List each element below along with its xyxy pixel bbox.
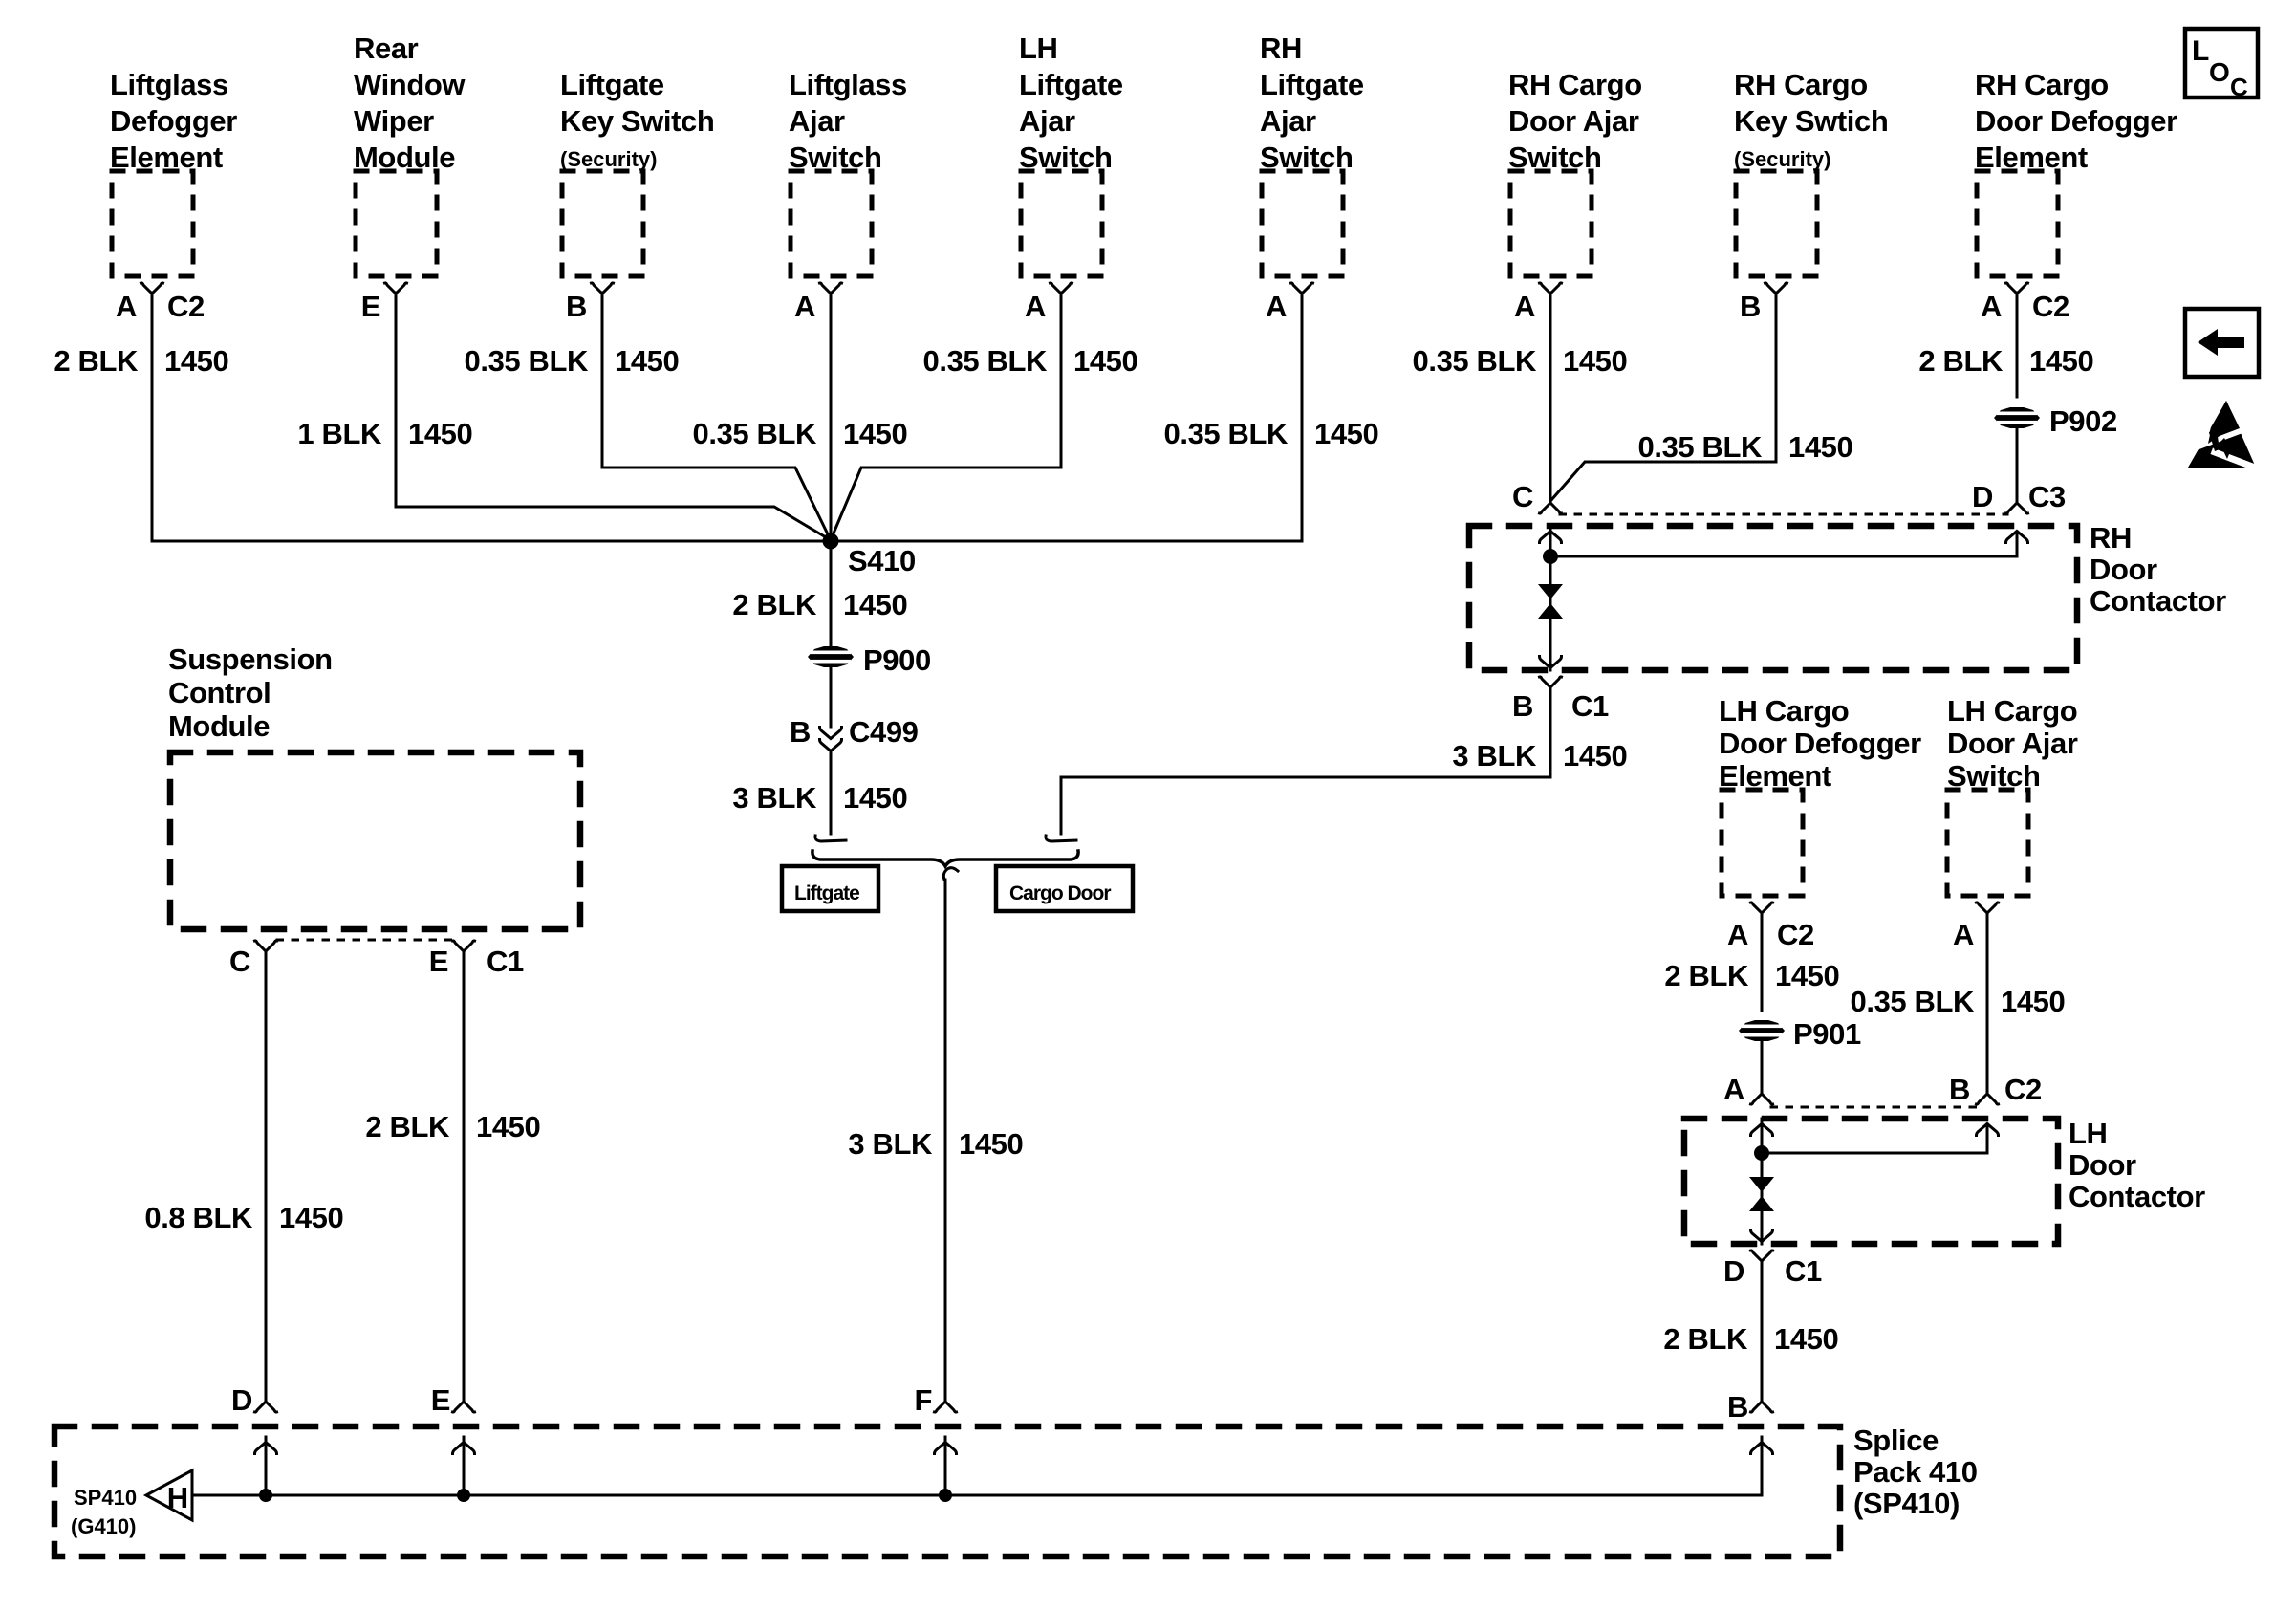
left arrow icon — [2185, 309, 2259, 377]
svg-text:Suspension: Suspension — [168, 642, 333, 676]
svg-text:P902: P902 — [2049, 404, 2117, 438]
svg-text:Liftgate: Liftgate — [1019, 68, 1123, 101]
svg-text:0.35 BLK: 0.35 BLK — [1164, 417, 1289, 450]
connector fork, pin of Liftglass Defogger Element — [141, 283, 163, 294]
svg-text:Contactor: Contactor — [2090, 584, 2226, 618]
svg-text:(SP410): (SP410) — [1853, 1487, 1960, 1520]
wire: Rear Window Wiper Module E to S410 — [396, 293, 831, 540]
svg-text:Liftgate: Liftgate — [1260, 68, 1364, 101]
wire: SCM E to Splice Pack E — [463, 951, 466, 1402]
wire: RH Door Contactor B to cargo-door brace — [1061, 687, 1550, 834]
svg-text:1450: 1450 — [1563, 344, 1627, 378]
junction dot F on bus — [939, 1489, 952, 1502]
wire: SCM C to Splice Pack D — [265, 951, 268, 1402]
wire: C499 to liftgate brace — [830, 751, 833, 834]
svg-text:A: A — [1266, 290, 1287, 323]
svg-text:C2: C2 — [2004, 1073, 2042, 1106]
svg-text:Liftgate: Liftgate — [794, 882, 859, 904]
svg-text:0.35 BLK: 0.35 BLK — [1413, 344, 1537, 378]
svg-text:Window: Window — [354, 68, 466, 101]
svg-text:1450: 1450 — [164, 344, 228, 378]
svg-text:1 BLK: 1 BLK — [297, 417, 382, 450]
junction dot D on bus — [259, 1489, 272, 1502]
svg-text:Ajar: Ajar — [1019, 104, 1075, 138]
svg-text:H: H — [167, 1481, 188, 1514]
svg-text:Key Swtich: Key Swtich — [1734, 104, 1888, 138]
component box: Liftgate Key Switch (Security) (dashed) — [562, 171, 643, 276]
svg-text:A: A — [1727, 918, 1748, 951]
svg-text:LH: LH — [1019, 32, 1058, 65]
svg-text:E: E — [429, 945, 448, 978]
svg-text:1450: 1450 — [1788, 430, 1852, 464]
component box: RH Cargo Key Swtich (Security) (dashed) — [1736, 171, 1817, 276]
splice S410 junction dot — [823, 533, 839, 550]
svg-text:D: D — [1972, 480, 1993, 513]
svg-text:1450: 1450 — [408, 417, 472, 450]
svg-text:Rear: Rear — [354, 32, 419, 65]
arrowhead up at F inside Splice Pack — [935, 1443, 957, 1454]
svg-text:(Security): (Security) — [560, 147, 657, 171]
connector fork F of Splice Pack — [935, 1402, 957, 1412]
arrowhead up at C inside RH Door Contactor — [1540, 532, 1562, 543]
svg-text:S410: S410 — [848, 544, 916, 577]
svg-text:C1: C1 — [1785, 1254, 1822, 1288]
svg-text:B: B — [1727, 1390, 1748, 1424]
LOC marker icon — [2185, 29, 2258, 98]
wire: Splice Pack ground bus — [192, 1494, 1762, 1497]
svg-text:Key Switch: Key Switch — [560, 104, 714, 138]
svg-text:0.8 BLK: 0.8 BLK — [144, 1201, 253, 1234]
component box: Rear Window Wiper Module (dashed) — [356, 171, 437, 276]
svg-text:0.35 BLK: 0.35 BLK — [465, 344, 589, 378]
ESD sensitive device icon — [2188, 401, 2256, 468]
svg-text:2 BLK: 2 BLK — [54, 344, 139, 378]
arrowhead up at B inside Splice Pack — [1751, 1443, 1773, 1454]
svg-text:A: A — [116, 290, 137, 323]
wire: internal riser to B — [1986, 1124, 1989, 1153]
svg-text:C3: C3 — [2028, 480, 2066, 513]
wire: LH Liftgate Ajar Switch A to S410 — [831, 293, 1061, 540]
svg-text:2 BLK: 2 BLK — [1918, 344, 2004, 378]
svg-text:1450: 1450 — [2029, 344, 2093, 378]
arrowhead up at B inside LH Door Contactor — [1977, 1124, 1999, 1136]
svg-text:1450: 1450 — [843, 781, 907, 815]
svg-text:0.35 BLK: 0.35 BLK — [1638, 430, 1763, 464]
svg-text:Door: Door — [2090, 553, 2157, 586]
grommet P901 — [1739, 1020, 1785, 1041]
wire: Splice Pack D to bus — [265, 1437, 268, 1495]
svg-text:Control: Control — [168, 676, 271, 709]
connector face dotted line C to E — [277, 939, 452, 942]
svg-text:3 BLK: 3 BLK — [848, 1127, 933, 1161]
svg-text:C1: C1 — [1571, 689, 1609, 723]
connector fork, pin of LH Liftgate Ajar Switch — [1051, 283, 1072, 294]
wire: S410 to P900 — [830, 541, 833, 646]
grommet P902 — [1994, 407, 2040, 428]
Splice Pack 410 (large dashed box) — [54, 1426, 1840, 1556]
svg-text:(Security): (Security) — [1734, 147, 1830, 171]
connector face dotted line C to D — [1560, 513, 2007, 516]
svg-text:Defogger: Defogger — [110, 104, 237, 138]
svg-text:C2: C2 — [167, 290, 205, 323]
component box: RH Cargo Door Ajar Switch (dashed) — [1510, 171, 1592, 276]
arrowhead up at D inside Splice Pack — [255, 1443, 277, 1454]
arrowhead down at B inside RH Door Contactor — [1540, 657, 1562, 668]
arrowhead up at D inside RH Door Contactor — [2006, 532, 2028, 543]
svg-text:1450: 1450 — [1774, 1322, 1838, 1356]
connector fork B of RH Door Contactor — [1540, 677, 1562, 687]
svg-text:Liftglass: Liftglass — [110, 68, 228, 101]
component box: LH Cargo Door Defogger Element (dashed) — [1722, 790, 1803, 896]
svg-text:(G410): (G410) — [71, 1514, 136, 1538]
svg-text:P901: P901 — [1793, 1017, 1861, 1051]
wire: LH defogger to P901 — [1761, 913, 1764, 1011]
svg-text:2 BLK: 2 BLK — [1663, 1322, 1748, 1356]
connector face dotted line A to B — [1771, 1106, 1978, 1109]
connector fork, pin of Liftglass Ajar Switch — [820, 283, 842, 294]
svg-text:O: O — [2209, 57, 2230, 87]
svg-text:Liftgate: Liftgate — [560, 68, 664, 101]
connector fork, pin of LH Cargo Door Defogger Element — [1751, 903, 1773, 913]
wire: P900 to C499 — [830, 667, 833, 727]
junction dot E on bus — [457, 1489, 470, 1502]
svg-text:Pack 410: Pack 410 — [1853, 1455, 1978, 1489]
svg-text:A: A — [1953, 918, 1974, 951]
wire: RH Liftgate Ajar Switch A down — [1301, 293, 1304, 541]
svg-text:E: E — [361, 290, 380, 323]
svg-text:Module: Module — [168, 709, 270, 743]
connector fork A of LH Door Contactor — [1751, 1094, 1773, 1104]
boxed label: Liftgate — [782, 866, 878, 911]
svg-text:1450: 1450 — [843, 588, 907, 621]
arrowhead up at E inside Splice Pack — [453, 1443, 475, 1454]
svg-text:Splice: Splice — [1853, 1424, 1939, 1457]
svg-text:C: C — [229, 945, 250, 978]
svg-text:RH: RH — [1260, 32, 1302, 65]
svg-text:C2: C2 — [2032, 290, 2069, 323]
svg-text:F: F — [914, 1383, 932, 1417]
svg-text:Ajar: Ajar — [1260, 104, 1316, 138]
svg-text:B: B — [1512, 689, 1533, 723]
wire: RH Cargo Key Swtich B to RH Door Contactor C — [1551, 293, 1776, 500]
svg-text:B: B — [566, 290, 587, 323]
wire: LH Door Contactor D to Splice Pack B — [1761, 1261, 1764, 1402]
svg-text:1450: 1450 — [615, 344, 679, 378]
arrowhead up at A inside LH Door Contactor — [1751, 1124, 1773, 1136]
wire: RH Cargo Door Ajar Switch A to RH Door Contactor C — [1549, 293, 1552, 503]
svg-text:C1: C1 — [487, 945, 524, 978]
connector fork, pin of LH Cargo Door Ajar Switch — [1977, 903, 1999, 913]
svg-text:B: B — [790, 715, 811, 749]
svg-text:C: C — [2230, 73, 2248, 101]
brace grouping Liftgate / Cargo Door — [812, 851, 1078, 866]
svg-text:2 BLK: 2 BLK — [1664, 959, 1749, 992]
svg-text:2 BLK: 2 BLK — [732, 588, 817, 621]
arrowhead down at D inside LH Door Contactor — [1751, 1230, 1773, 1242]
connector C499 fork — [820, 740, 842, 751]
connector fork E of Splice Pack — [453, 1402, 475, 1412]
svg-text:C2: C2 — [1777, 918, 1814, 951]
connector fork, pin of Rear Window Wiper Module — [385, 283, 407, 294]
wire: Splice Pack F to bus — [944, 1437, 947, 1495]
svg-text:A: A — [1514, 290, 1535, 323]
connector fork, pin of RH Cargo Door Ajar Switch — [1540, 283, 1562, 294]
svg-text:Ajar: Ajar — [789, 104, 845, 138]
svg-text:1450: 1450 — [476, 1110, 540, 1143]
connector fork D of RH Door Contactor — [2006, 503, 2028, 513]
svg-text:Door Defogger: Door Defogger — [1719, 727, 1921, 760]
connector fork D of LH Door Contactor — [1751, 1251, 1773, 1261]
svg-text:RH Cargo: RH Cargo — [1508, 68, 1642, 101]
svg-text:1450: 1450 — [2001, 985, 2065, 1018]
ground reference triangle SP410 pin H — [146, 1470, 192, 1520]
svg-text:1450: 1450 — [959, 1127, 1023, 1161]
component box: RH Cargo Door Defogger Element (dashed) — [1977, 171, 2058, 276]
wire: Liftgate Key Switch B to S410 — [602, 293, 831, 540]
wire: internal horizontal LH Door Contactor — [1762, 1152, 1987, 1155]
junction inside RH Door Contactor — [1543, 549, 1558, 564]
connector fork B of Splice Pack — [1751, 1402, 1773, 1412]
wire: LH Door Contactor internal vertical — [1761, 1119, 1764, 1244]
svg-text:1450: 1450 — [843, 417, 907, 450]
svg-text:B: B — [1740, 290, 1761, 323]
wire: internal riser to D — [2016, 532, 2019, 556]
svg-text:A: A — [1981, 290, 2002, 323]
connector fork, pin of RH Liftgate Ajar Switch — [1291, 283, 1313, 294]
wire: LH ajar switch to LH Door Contactor B — [1986, 913, 1989, 1094]
Suspension Control Module (large dashed box) — [170, 752, 580, 929]
svg-text:B: B — [1949, 1073, 1970, 1106]
junction inside LH Door Contactor — [1754, 1145, 1769, 1161]
svg-text:Door Ajar: Door Ajar — [1508, 104, 1639, 138]
wire: P902 to RH Door Contactor D — [2016, 428, 2019, 503]
component box: LH Liftgate Ajar Switch (dashed) — [1021, 171, 1102, 276]
component box: Liftglass Defogger Element (dashed) — [112, 171, 193, 276]
svg-text:1450: 1450 — [1073, 344, 1137, 378]
svg-text:Wiper: Wiper — [354, 104, 434, 138]
wire: internal horizontal RH Door Contactor — [1550, 555, 2017, 558]
svg-text:Cargo Door: Cargo Door — [1009, 882, 1111, 904]
svg-text:D: D — [231, 1383, 252, 1417]
connector fork, pin of RH Cargo Key Swtich (Security) — [1765, 283, 1787, 294]
diode pair inside RH Door Contactor — [1538, 584, 1563, 619]
connector C499 arrow — [820, 728, 842, 739]
connector fork C of Suspension Control Module — [255, 941, 277, 951]
svg-text:Liftglass: Liftglass — [789, 68, 907, 101]
curl at top of splice pack F wire — [943, 868, 958, 880]
wire: Splice Pack B riser — [1761, 1437, 1764, 1495]
svg-text:C499: C499 — [849, 715, 919, 749]
svg-text:2 BLK: 2 BLK — [365, 1110, 450, 1143]
svg-text:A: A — [1723, 1073, 1744, 1106]
wire end hook (liftgate) — [815, 836, 846, 841]
wire: RH Door Contactor internal vertical — [1549, 526, 1552, 670]
connector fork, pin of RH Cargo Door Defogger Element — [2006, 283, 2028, 294]
svg-text:0.35 BLK: 0.35 BLK — [693, 417, 817, 450]
svg-text:1450: 1450 — [1314, 417, 1378, 450]
svg-text:D: D — [1723, 1254, 1744, 1288]
svg-text:RH: RH — [2090, 521, 2132, 555]
svg-text:E: E — [431, 1383, 450, 1417]
svg-text:C: C — [1512, 480, 1533, 513]
wire: Liftglass Defogger Element A to S410 — [151, 293, 154, 541]
wire: Liftglass Ajar Switch A to S410 — [830, 293, 833, 541]
component box: RH Liftgate Ajar Switch (dashed) — [1262, 171, 1343, 276]
connector fork, pin of Liftgate Key Switch (Security) — [592, 283, 614, 294]
svg-text:Door Defogger: Door Defogger — [1975, 104, 2177, 138]
svg-text:LH Cargo: LH Cargo — [1947, 694, 2077, 728]
svg-text:RH Cargo: RH Cargo — [1975, 68, 2109, 101]
connector fork D of Splice Pack — [255, 1402, 277, 1412]
diode pair inside LH Door Contactor — [1749, 1177, 1774, 1211]
connector fork E of Suspension Control Module — [453, 941, 475, 951]
boxed label: Cargo Door — [996, 866, 1133, 911]
wire: RH Cargo Door Defogger Element to P902 — [2016, 293, 2019, 397]
svg-text:A: A — [1025, 290, 1046, 323]
svg-text:A: A — [794, 290, 815, 323]
svg-text:SP410: SP410 — [74, 1486, 137, 1510]
svg-text:3 BLK: 3 BLK — [1452, 739, 1537, 772]
component box: LH Cargo Door Ajar Switch (dashed) — [1947, 790, 2028, 896]
svg-text:Door Ajar: Door Ajar — [1947, 727, 2078, 760]
svg-text:LH: LH — [2069, 1117, 2108, 1150]
LH Door Contactor (large dashed box) — [1684, 1119, 2058, 1244]
svg-text:L: L — [2192, 35, 2209, 67]
svg-text:1450: 1450 — [279, 1201, 343, 1234]
svg-text:RH Cargo: RH Cargo — [1734, 68, 1868, 101]
wire: S410 horizontal bus — [152, 540, 1302, 543]
wire: brace to Splice Pack F — [944, 880, 947, 1402]
svg-text:Contactor: Contactor — [2069, 1180, 2205, 1213]
svg-text:P900: P900 — [863, 643, 931, 677]
connector fork B of LH Door Contactor — [1977, 1094, 1999, 1104]
grommet P900 — [808, 646, 854, 667]
svg-text:Door: Door — [2069, 1148, 2136, 1182]
svg-text:0.35 BLK: 0.35 BLK — [1851, 985, 1975, 1018]
svg-text:3 BLK: 3 BLK — [732, 781, 817, 815]
wire: Splice Pack E to bus — [463, 1437, 466, 1495]
svg-text:1450: 1450 — [1563, 739, 1627, 772]
component box: Liftglass Ajar Switch (dashed) — [791, 171, 872, 276]
svg-text:0.35 BLK: 0.35 BLK — [923, 344, 1048, 378]
svg-text:1450: 1450 — [1775, 959, 1839, 992]
wire end hook (cargo door) — [1046, 836, 1076, 841]
wire: P901 to LH Door Contactor A — [1761, 1041, 1764, 1094]
svg-text:LH Cargo: LH Cargo — [1719, 694, 1849, 728]
RH Door Contactor (large dashed box) — [1469, 526, 2077, 670]
connector fork C of RH Door Contactor — [1540, 503, 1562, 513]
